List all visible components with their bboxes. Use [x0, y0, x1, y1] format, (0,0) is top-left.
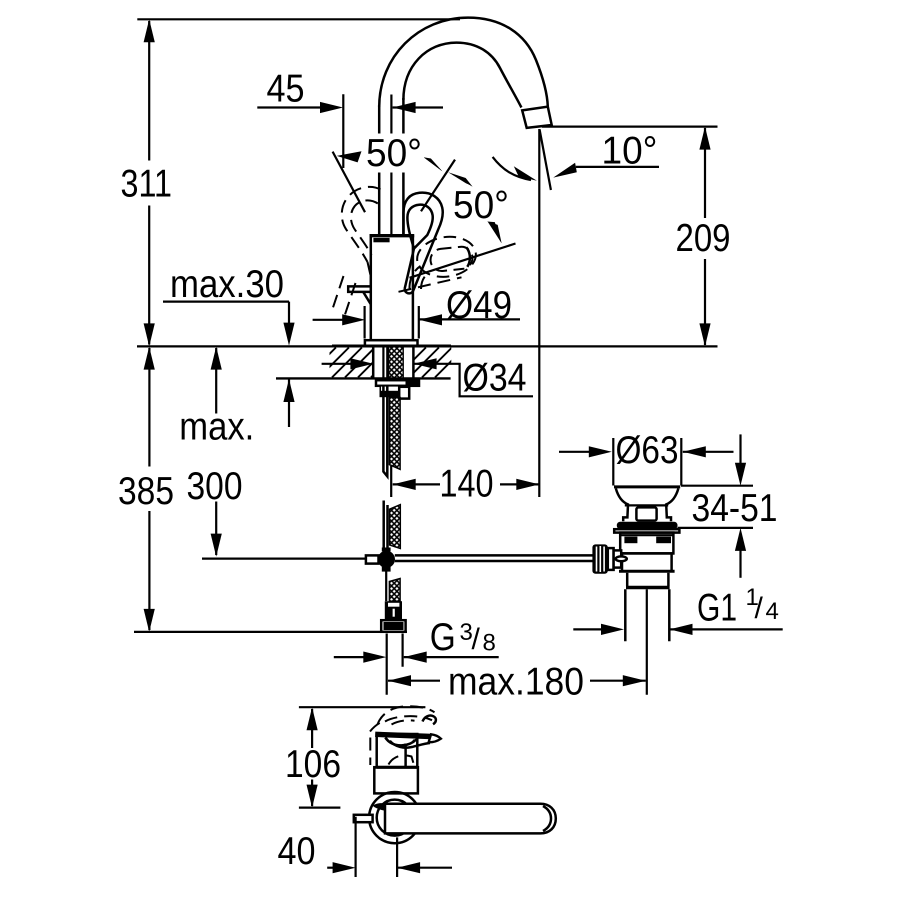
svg-text:34-51: 34-51 — [692, 487, 778, 530]
tv spout capsule — [385, 804, 556, 834]
dimension G1 1/4 — [573, 624, 782, 635]
counter hatching — [306, 348, 465, 378]
dimension 385 — [134, 347, 407, 632]
mounting nut — [380, 386, 402, 397]
mounting washer — [376, 380, 419, 386]
svg-text:50°: 50° — [453, 184, 509, 227]
dimension 34-51 — [678, 434, 754, 577]
dimension 40 — [327, 817, 452, 877]
tv handle solid curl — [423, 716, 436, 725]
loop handle inner lower edge — [405, 249, 414, 290]
svg-text:/: / — [472, 623, 481, 656]
dimension 50deg handle-down — [399, 221, 516, 292]
drain centre line — [646, 589, 648, 695]
dimension max30 — [163, 302, 295, 427]
svg-text:Ø63: Ø63 — [616, 429, 679, 472]
body mark bar — [373, 238, 389, 242]
handle up position dashed — [342, 187, 381, 262]
handle down position dashed inner — [429, 246, 473, 272]
svg-text:50°: 50° — [366, 132, 422, 175]
dimension 50deg lever lift — [333, 151, 473, 212]
svg-text:G: G — [430, 616, 456, 659]
tv body upper — [377, 734, 418, 768]
counter top line — [137, 345, 718, 347]
dimension G3/8 — [334, 634, 499, 695]
body top edge thick — [370, 234, 415, 237]
faucet body — [371, 236, 413, 341]
loop handle outer — [404, 193, 443, 291]
dimension O63 — [559, 438, 734, 486]
tv rod pin — [354, 815, 373, 822]
loop handle tail cap — [405, 289, 414, 293]
svg-text:Ø49: Ø49 — [446, 284, 512, 327]
gasket — [617, 522, 678, 529]
tv body lower — [374, 767, 418, 793]
dimension O34 — [322, 358, 533, 396]
rod pivot — [616, 556, 627, 561]
mid body — [619, 553, 674, 570]
plug top — [614, 485, 680, 488]
braided hose (counter) — [389, 347, 404, 379]
supply hose smooth lower — [384, 501, 388, 552]
G3/8 nut — [381, 620, 405, 632]
rod clamp knob — [592, 544, 607, 573]
tv ref line top — [299, 706, 426, 708]
base flange — [365, 340, 418, 346]
dimension O49 — [313, 306, 520, 339]
svg-text:311: 311 — [121, 163, 173, 206]
upper valve body with slots — [620, 533, 673, 554]
dimension 10deg — [493, 129, 659, 497]
dimension 45 — [257, 94, 443, 168]
text mask 50deg A — [364, 134, 424, 173]
top view of faucet — [299, 706, 556, 843]
centre line between hose parts — [390, 466, 392, 497]
tv capsule-circle junction — [373, 803, 386, 811]
tv neck interior line — [404, 744, 407, 767]
spout outer arc — [379, 18, 548, 107]
svg-text:G1: G1 — [697, 587, 737, 630]
spout inner arc — [403, 43, 521, 108]
svg-text:106: 106 — [285, 743, 341, 786]
handle down position dashed outer — [415, 233, 479, 280]
shank hole edges — [373, 347, 413, 379]
braided hose tail — [389, 579, 400, 602]
pop-up rod — [395, 555, 593, 561]
svg-text:max.30: max.30 — [170, 263, 284, 306]
svg-text:10°: 10° — [602, 130, 658, 173]
handle up tail dashes — [332, 276, 344, 312]
shank stub — [399, 387, 409, 399]
faucet centre axis line — [390, 95, 392, 236]
svg-text:8: 8 — [483, 629, 496, 656]
spout pipe right edge — [402, 98, 405, 236]
svg-text:300: 300 — [187, 465, 243, 508]
svg-text:385: 385 — [118, 470, 174, 513]
tv handle leaf bar — [375, 734, 431, 736]
braided hose upper — [389, 398, 400, 470]
spout pipe left edge — [378, 105, 381, 236]
svg-text:max.: max. — [179, 406, 254, 449]
dimension 140 — [393, 479, 540, 490]
dimension 106 — [299, 707, 341, 807]
aerator tip — [522, 107, 552, 128]
dimension max300 — [211, 347, 222, 557]
lever pin — [348, 286, 371, 292]
ball joint — [378, 551, 395, 568]
svg-text:max.180: max.180 — [448, 661, 584, 704]
plug profile — [616, 488, 628, 521]
svg-text:/: / — [755, 592, 764, 625]
svg-text:4: 4 — [766, 598, 779, 625]
svg-text:140: 140 — [440, 462, 494, 505]
svg-text:45: 45 — [267, 68, 305, 111]
supply hose edges (counter) — [383, 347, 387, 379]
tv escutcheon — [369, 792, 420, 843]
handle down tail dashes — [409, 266, 420, 290]
collar — [627, 573, 668, 586]
dimension 209 — [542, 127, 718, 347]
G3/8 fitting — [385, 601, 402, 620]
tv handle dashed arcs — [370, 721, 385, 732]
rod end fitting — [366, 555, 379, 563]
plug pin — [636, 507, 656, 520]
drain valve — [592, 487, 680, 695]
tv handle bowl — [385, 738, 416, 746]
max300 ref line — [202, 557, 366, 559]
svg-text:40: 40 — [278, 830, 316, 873]
supply hose smooth — [383, 386, 387, 477]
dimension 311 — [137, 19, 460, 346]
sink flange — [614, 529, 679, 532]
tv handle leaf tip — [429, 734, 441, 742]
loop handle hole — [407, 205, 432, 249]
dimension max180 — [388, 675, 646, 686]
svg-text:Ø34: Ø34 — [463, 357, 527, 400]
tailpipe — [625, 589, 669, 641]
counter bottom line — [276, 377, 451, 379]
svg-text:209: 209 — [676, 217, 731, 260]
faucet main view — [332, 18, 552, 346]
braided hose lower — [390, 505, 401, 549]
